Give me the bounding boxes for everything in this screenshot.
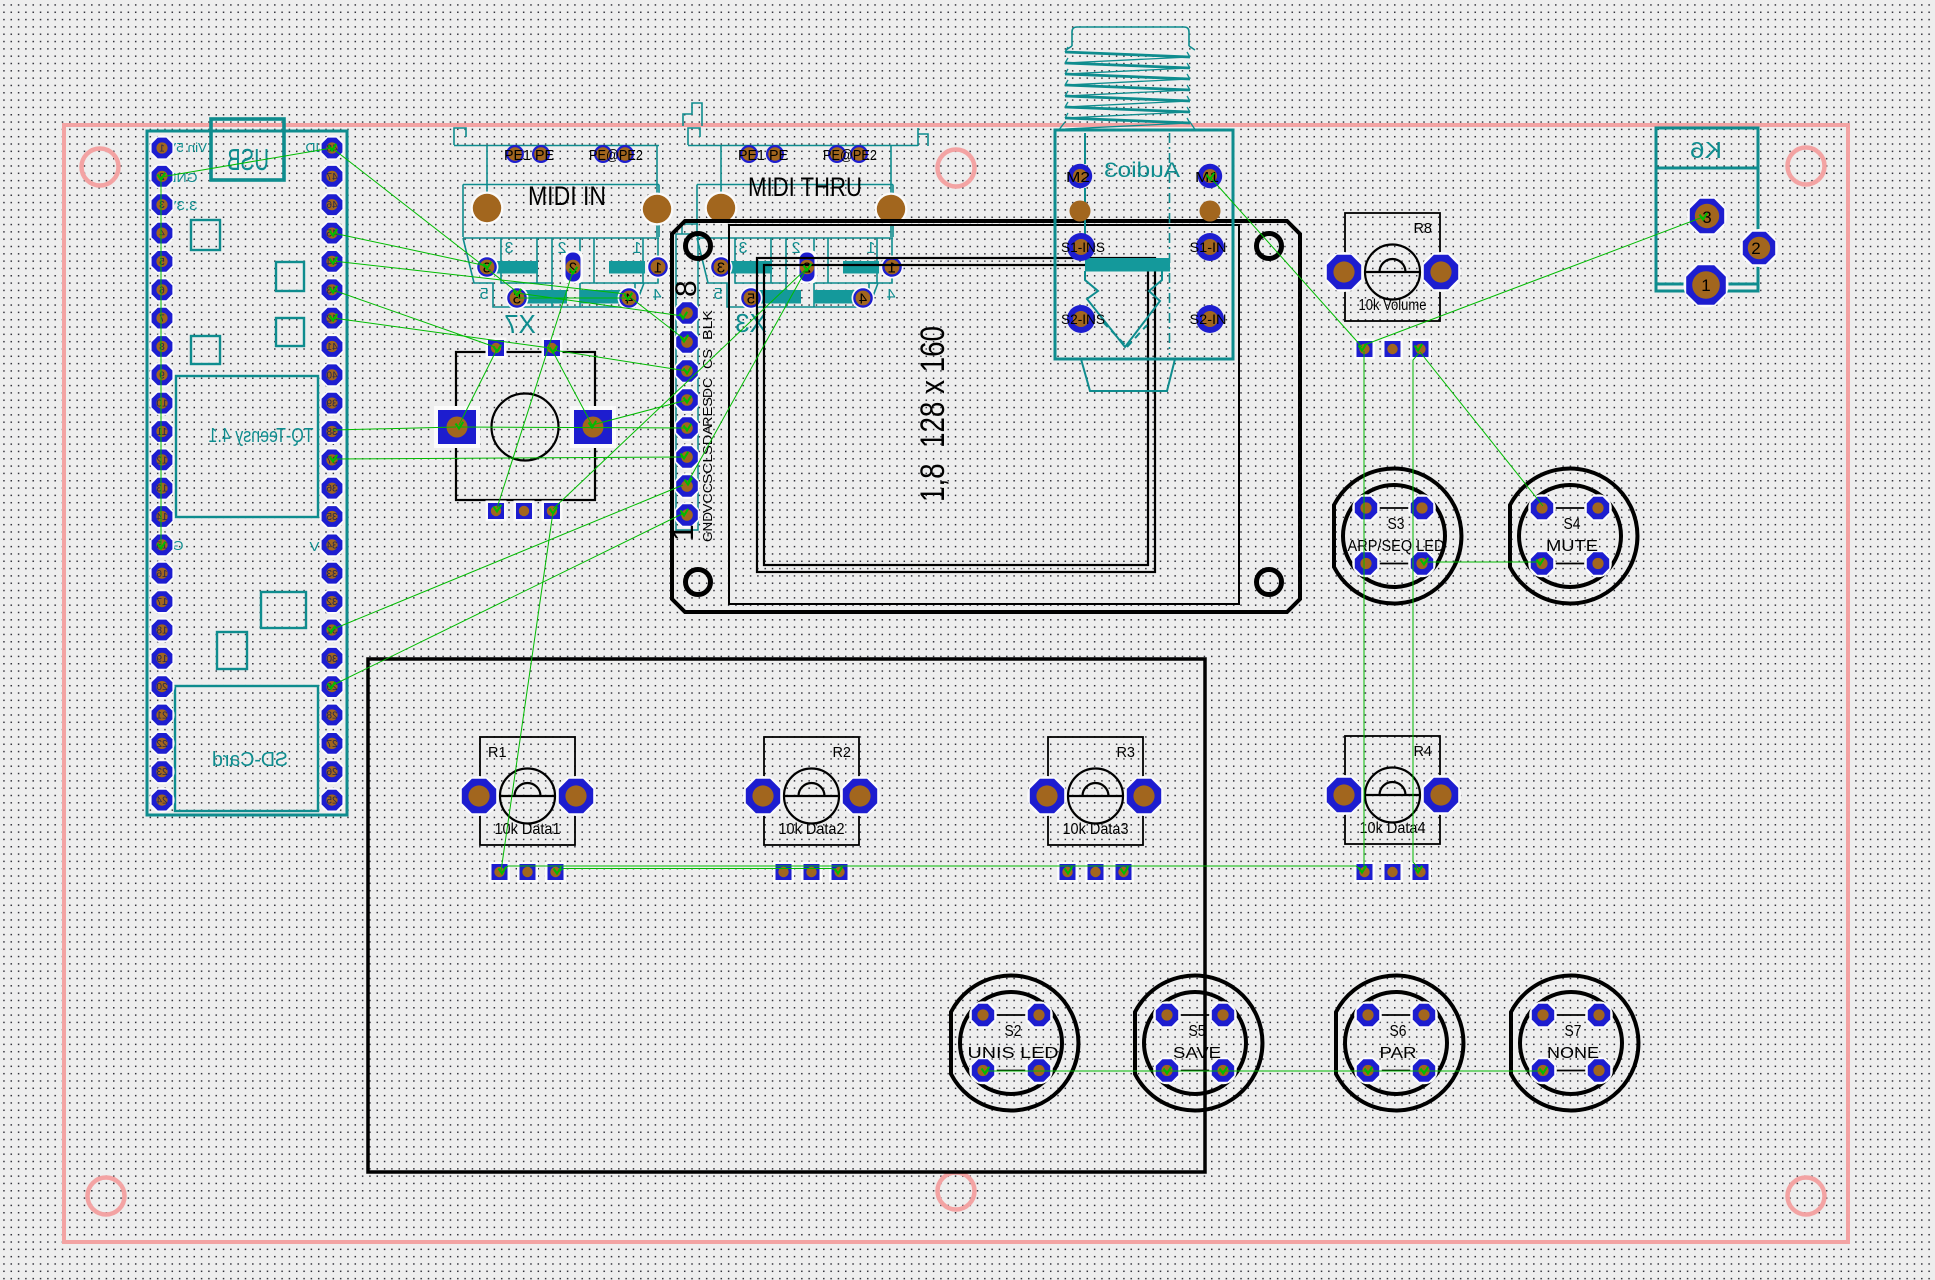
wire MIDI IN pin4 to X3 CS: [630, 297, 684, 339]
connector MIDI THRU outline: [688, 128, 928, 307]
svg-text:10k Data1: 10k Data1: [495, 821, 561, 838]
svg-text:S2-IN: S2-IN: [1190, 311, 1227, 327]
svg-text:ARP/SEQ LED: ARP/SEQ LED: [1348, 538, 1445, 555]
svg-text:10: 10: [156, 399, 168, 410]
encoder X7 pads 1-3: [486, 501, 507, 522]
MIDI IN pin 4: [618, 287, 641, 310]
Audio3 pad S1-IN: [1196, 233, 1224, 261]
MIDI THRU PE pads: [740, 145, 758, 163]
wire teensy to MIDI IN pin3: [333, 233, 487, 266]
MIDI THRU pin 1: [881, 256, 904, 279]
svg-text:VCC: VCC: [700, 483, 715, 513]
header X3 pin 8 BLK: [674, 300, 700, 326]
svg-text:PE@PE2: PE@PE2: [823, 147, 877, 164]
MIDI THRU pin 3: [710, 256, 733, 279]
Audio3 pad S2-INS: [1067, 305, 1095, 333]
header X3 pin 1 GND: [674, 502, 700, 528]
svg-text:4: 4: [159, 229, 165, 240]
header X3 pin 7 CS: [674, 329, 700, 355]
svg-text:12: 12: [156, 455, 168, 466]
svg-text:35: 35: [326, 512, 338, 523]
MIDI IN mounting hole left: [471, 192, 504, 225]
svg-text:10k Volume: 10k Volume: [1359, 297, 1427, 314]
wire R8 pad3 to R4 pad3: [1413, 353, 1419, 869]
svg-text:CS: CS: [700, 349, 715, 369]
svg-text:S1-IN: S1-IN: [1190, 239, 1227, 255]
svg-text:13: 13: [156, 484, 168, 495]
svg-text:10k Data4: 10k Data4: [1360, 820, 1426, 837]
header X3 pin 2 VCC: [674, 473, 700, 499]
svg-text:S1-INS: S1-INS: [1061, 239, 1105, 255]
potentiometer R4: [1345, 736, 1440, 844]
potentiometer R3: [1048, 737, 1143, 845]
wire R1-R2-R3-R4 terminal chain: [502, 866, 1362, 872]
encoder X7 pad A: [486, 338, 507, 359]
MIDI IN PE pads: [506, 145, 524, 163]
svg-text:47: 47: [326, 172, 338, 183]
pushbutton S2: [951, 975, 1078, 1110]
svg-text:1: 1: [632, 240, 641, 257]
svg-text:17: 17: [156, 597, 168, 608]
MIDI THRU pin 2: [797, 251, 817, 284]
svg-text:X7: X7: [504, 309, 536, 339]
svg-text:R4: R4: [1413, 744, 1432, 760]
LCD display module outline: [672, 221, 1300, 612]
Audio3 trace bar: [1085, 258, 1170, 272]
R8 pad 1: [1324, 252, 1364, 292]
svg-text:GND: GND: [700, 512, 715, 542]
encoder X7 pad B: [542, 338, 563, 359]
Audio3 index holes: [1070, 201, 1091, 222]
MIDI IN pad traces: [489, 261, 645, 304]
mounting hole H3: [1788, 148, 1825, 185]
R4 terminal pads: [1354, 862, 1375, 883]
control panel outline rectangle: [368, 659, 1205, 1172]
wire Audio3 M1 to R8 pad1: [1210, 177, 1362, 347]
S6 pads: [1354, 1001, 1382, 1029]
wire teensy to X3 GND: [331, 513, 684, 686]
R4 pad 1: [1324, 775, 1364, 815]
R2 terminal pads: [773, 862, 794, 883]
svg-text:5: 5: [747, 291, 755, 308]
Audio3 pad S2-IN: [1196, 305, 1224, 333]
svg-text:36: 36: [326, 484, 338, 495]
MIDI IN pin 3: [476, 256, 499, 279]
MIDI IN pin 1: [647, 256, 670, 279]
wire teensy to X3 VCC: [331, 485, 683, 630]
wire teensy to X7 left pad: [333, 427, 456, 430]
svg-text:11: 11: [156, 427, 167, 438]
wire teensy to X3 SCL: [333, 457, 684, 459]
R3 pad 1: [1027, 776, 1067, 816]
potentiometer R8: [1345, 213, 1440, 321]
svg-text:1: 1: [1701, 276, 1710, 295]
R1 pad 3: [556, 776, 596, 816]
wire X3 DC to X7 pad B: [553, 350, 687, 371]
connector Audio3 outline: [1055, 130, 1233, 359]
potentiometer R1: [480, 737, 575, 845]
svg-text:23: 23: [156, 767, 168, 778]
wire R8 pad1 to K6 pad3: [1364, 217, 1703, 345]
svg-text:3: 3: [738, 240, 747, 257]
R2 pad 1: [743, 776, 783, 816]
svg-text:16: 16: [156, 569, 168, 580]
MIDI IN pin 2: [563, 251, 583, 284]
svg-text:28: 28: [326, 711, 338, 722]
header X3 outline: [676, 224, 698, 530]
svg-text:TQ-Teensy 4.1: TQ-Teensy 4.1: [209, 425, 314, 447]
svg-text:S2: S2: [1005, 1023, 1022, 1040]
K6 pad 1: [1684, 263, 1729, 308]
wire R8 pad3 to S4 pad: [1420, 352, 1543, 506]
svg-text:32: 32: [326, 597, 338, 608]
svg-text:PAR: PAR: [1380, 1045, 1417, 1062]
svg-text:8: 8: [670, 280, 703, 297]
connector K6 outline: [1656, 128, 1758, 291]
MIDI IN mounting hole right: [641, 193, 674, 226]
Audio3 bottom tab: [1081, 359, 1175, 391]
wire X7 pad B to right pad: [552, 350, 592, 425]
svg-text:3: 3: [504, 240, 513, 257]
svg-text:21: 21: [156, 711, 168, 722]
R8 terminal pads: [1354, 339, 1375, 360]
S2 pads: [969, 1001, 997, 1029]
pushbutton S4: [1510, 469, 1637, 604]
S7 pads: [1529, 1001, 1557, 1029]
wire teensy to MIDI IN pin4: [333, 261, 626, 294]
svg-text:MIDI THRU: MIDI THRU: [748, 172, 862, 202]
R1 pad 1: [459, 776, 499, 816]
R8 pad 3: [1421, 252, 1461, 292]
svg-text:3: 3: [717, 260, 725, 277]
connector Audio3 thread drawing: [1058, 27, 1196, 131]
svg-text:S2-INS: S2-INS: [1061, 311, 1105, 327]
svg-text:30: 30: [326, 654, 338, 665]
svg-text:40: 40: [326, 370, 338, 381]
wire S3 to S4: [1424, 561, 1540, 563]
Teensy pin headers (24 + 24): [149, 135, 174, 160]
svg-text:S5: S5: [1189, 1023, 1206, 1040]
svg-text:R3: R3: [1116, 745, 1135, 761]
svg-text:R8: R8: [1413, 221, 1432, 237]
svg-text:4: 4: [652, 287, 661, 304]
svg-text:UNIS LED: UNIS LED: [968, 1045, 1059, 1062]
LCD inner silk rect: [729, 225, 1239, 604]
svg-text:S4: S4: [1564, 516, 1581, 533]
wire MIDI IN pin5 to X3 BLK: [517, 293, 683, 316]
svg-text:BLK: BLK: [700, 310, 715, 340]
svg-text:5: 5: [479, 286, 488, 303]
svg-text:2: 2: [1751, 239, 1760, 258]
encoder X7 mount pad left: [434, 406, 480, 448]
connector MIDI IN outline: [454, 128, 659, 307]
wire S2-S5-S6-S7 chain: [985, 1070, 1543, 1072]
svg-text:1: 1: [159, 144, 165, 155]
svg-text:33: 33: [326, 569, 338, 580]
svg-text:9: 9: [159, 370, 165, 381]
svg-text:SDA: SDA: [700, 425, 715, 455]
wire MIDI IN pin5 to pin4: [518, 297, 628, 299]
svg-text:5: 5: [159, 257, 165, 268]
svg-text:MIDI IN: MIDI IN: [528, 181, 606, 211]
wire GND teensy pin1 to pin2: [161, 148, 332, 177]
wire endpoint markers: [158, 173, 166, 180]
svg-text:DC: DC: [700, 378, 715, 398]
svg-text:X3: X3: [735, 308, 767, 338]
svg-text:1: 1: [654, 260, 662, 277]
wire MIDI THRU pin2 to X7 pad3: [553, 268, 807, 509]
wire X3 RES to X7 right pad: [592, 400, 687, 425]
MIDI THRU pad traces: [723, 261, 879, 304]
Audio3 pad M2: [1068, 164, 1092, 188]
wire GND along teensy left pins: [160, 177, 162, 546]
svg-text:18: 18: [156, 625, 168, 636]
svg-text:41: 41: [326, 342, 338, 353]
svg-text:3: 3: [159, 200, 165, 211]
svg-text:SAVE: SAVE: [1173, 1045, 1221, 1062]
svg-text:19: 19: [156, 654, 168, 665]
svg-text:4: 4: [886, 287, 895, 304]
wire R1 pad3 to R2 chain: [558, 869, 838, 873]
svg-text:27: 27: [326, 739, 338, 750]
svg-text:NONE: NONE: [1547, 1045, 1599, 1062]
svg-text:PE1 PE: PE1 PE: [504, 147, 554, 164]
mounting hole H1: [82, 149, 119, 186]
svg-text:22: 22: [156, 739, 168, 750]
svg-text:20: 20: [156, 682, 168, 693]
header X3 pin 6 DC: [674, 358, 700, 384]
R4 pad 3: [1421, 775, 1461, 815]
wire R8 pad1 to R4 pad1 vertical: [1363, 351, 1365, 868]
pushbutton S6: [1336, 975, 1463, 1110]
pushbutton S7: [1511, 975, 1638, 1110]
svg-text:R1: R1: [488, 745, 507, 761]
wire X7 pad A to left pad: [459, 349, 497, 425]
header X3 pin 4 SDA: [674, 415, 700, 441]
Audio3 pad S1-INS: [1067, 233, 1095, 261]
MIDI IN pin 5: [506, 287, 529, 310]
S4 pads: [1528, 494, 1556, 522]
svg-text:PE1 PE: PE1 PE: [738, 147, 788, 164]
svg-text:25: 25: [326, 796, 338, 807]
LCD mounting holes: [686, 234, 711, 259]
wire teensy to MIDI IN pin5: [332, 148, 517, 292]
MIDI THRU pin 5: [740, 287, 763, 310]
encoder X7 outline: [456, 352, 595, 500]
svg-text:39: 39: [326, 399, 338, 410]
pushbutton S5: [1135, 975, 1262, 1110]
svg-text:38: 38: [326, 427, 338, 438]
svg-text:46: 46: [326, 200, 338, 211]
mounting hole H2: [938, 150, 975, 187]
svg-text:1: 1: [888, 260, 896, 277]
svg-text:R2: R2: [832, 745, 851, 761]
K6 pad 3: [1687, 196, 1727, 236]
svg-text:PE@PE2: PE@PE2: [589, 147, 643, 164]
pushbutton S3: [1334, 469, 1461, 604]
svg-text:S6: S6: [1390, 1023, 1407, 1040]
wire X7 pad3 to R1 pad1: [501, 512, 553, 871]
header X3 pin 3 SCL: [674, 444, 700, 470]
MIDI THRU mounting hole right: [875, 193, 908, 226]
wire teensy to X7 pad B: [333, 318, 550, 348]
mounting hole H6: [1788, 1178, 1825, 1215]
svg-text:SCL: SCL: [700, 454, 715, 484]
svg-text:K6: K6: [1690, 137, 1722, 163]
svg-text:S7: S7: [1565, 1023, 1582, 1040]
svg-text:6: 6: [159, 285, 165, 296]
svg-text:14: 14: [156, 512, 168, 523]
Audio3 jack symbol: [1085, 133, 1170, 355]
potentiometer R2: [764, 737, 859, 845]
K6 pad 2: [1740, 229, 1778, 267]
svg-text:7: 7: [159, 314, 165, 325]
MIDI THRU pin 4: [852, 287, 875, 310]
svg-text:1,8 128 x 160: 1,8 128 x 160: [914, 326, 952, 502]
svg-text:SD-Card: SD-Card: [212, 749, 288, 771]
wire MIDI IN pin2 to X7 pad: [497, 271, 573, 508]
connector shield tab: [683, 103, 702, 126]
MIDI THRU mounting hole left: [705, 192, 738, 225]
svg-text:S3: S3: [1388, 516, 1405, 533]
svg-text:5: 5: [713, 286, 722, 303]
R2 pad 3: [840, 776, 880, 816]
encoder X7 mount pad right: [570, 406, 616, 448]
Audio3 pad M1: [1198, 164, 1222, 188]
wire teensy to X7 pad A: [333, 290, 495, 347]
svg-text:M2: M2: [1066, 169, 1090, 186]
svg-text:34: 34: [326, 540, 338, 551]
svg-text:24: 24: [156, 796, 168, 807]
wire X3 SDA to X7 left pad: [459, 427, 687, 428]
svg-text:4: 4: [859, 291, 867, 308]
Teensy 4.1 module outline: [147, 119, 347, 815]
R3 pad 3: [1124, 776, 1164, 816]
mounting hole H5: [938, 1173, 975, 1210]
svg-text:2: 2: [791, 240, 800, 257]
svg-text:1: 1: [866, 240, 875, 257]
svg-text:2: 2: [557, 240, 566, 257]
svg-text:RES: RES: [700, 397, 715, 427]
header X3 pin 5 RES: [674, 387, 700, 413]
LCD screen area: [757, 258, 1155, 572]
svg-text:10k Data3: 10k Data3: [1063, 821, 1129, 838]
S5 pads: [1153, 1001, 1181, 1029]
svg-text:26: 26: [326, 767, 338, 778]
mounting hole H4: [88, 1178, 125, 1215]
wire MIDI THRU pin2 to X3 VCC: [688, 268, 807, 482]
S3 pads: [1352, 494, 1380, 522]
svg-text:10k Data2: 10k Data2: [779, 821, 845, 838]
svg-text:MUTE: MUTE: [1546, 538, 1598, 555]
svg-text:8: 8: [159, 342, 165, 353]
R1 terminal pads: [489, 862, 510, 883]
svg-text:Audio3: Audio3: [1104, 159, 1180, 182]
R3 terminal pads: [1057, 862, 1078, 883]
